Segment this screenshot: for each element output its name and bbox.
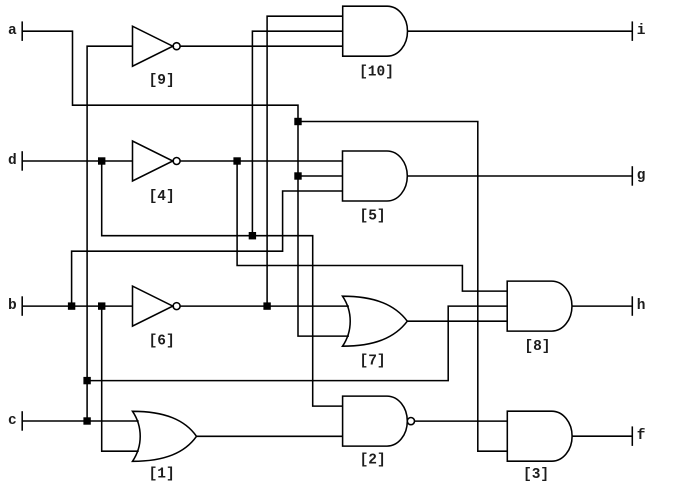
svg-text:a: a	[8, 23, 17, 39]
or gate U1	[133, 411, 197, 482]
output pin f	[632, 426, 645, 446]
svg-text:[8]: [8]	[524, 339, 550, 355]
or gate U7	[343, 296, 408, 369]
svg-text:[3]: [3]	[523, 467, 549, 483]
wire 6-out to gate 7	[180, 305, 349, 307]
wire 1-out to gate 2	[197, 435, 343, 437]
svg-text:[4]: [4]	[149, 189, 175, 205]
wire f output	[572, 435, 632, 437]
input pin d	[8, 151, 22, 171]
and gate U5	[343, 151, 408, 224]
svg-text:g: g	[637, 168, 646, 184]
input pin c	[8, 411, 22, 431]
and gate U3	[507, 411, 572, 483]
svg-text:i: i	[637, 23, 646, 39]
wire b branch up to gate 5	[72, 191, 343, 306]
wire g output	[407, 175, 632, 177]
inverter U4	[133, 141, 181, 205]
wire d branch down to gate 2	[102, 161, 343, 406]
wire a input line	[22, 31, 349, 336]
node b-down	[98, 302, 105, 309]
input pin a	[8, 21, 22, 41]
wire i output	[408, 30, 633, 32]
wire b branch down to gate 1	[102, 306, 139, 451]
wire d branch up to gate 10	[252, 31, 342, 236]
svg-text:b: b	[8, 298, 17, 314]
wire a branch to gate 5	[298, 175, 343, 177]
wire 7-out to gate 8	[407, 320, 507, 322]
wire b input line	[22, 305, 132, 307]
inverter U6	[133, 286, 181, 350]
wire a branch to gate 3	[298, 122, 507, 452]
svg-text:f: f	[637, 428, 646, 444]
wire 2-out to gate 3	[415, 420, 508, 422]
wire c branch to gate 8	[87, 306, 507, 381]
wire h output	[572, 305, 632, 307]
node a-branch2	[294, 172, 301, 179]
svg-text:h: h	[637, 298, 646, 314]
node a-branch1	[294, 118, 301, 125]
svg-text:c: c	[8, 413, 17, 429]
svg-text:[5]: [5]	[360, 208, 386, 224]
node c-branch	[83, 377, 90, 384]
svg-text:[2]: [2]	[360, 453, 386, 469]
node 4-out-branch	[233, 157, 240, 164]
svg-text:[7]: [7]	[360, 354, 386, 370]
nand gate U2	[343, 396, 415, 469]
wire c up to gate 9	[87, 46, 132, 421]
output pin i	[632, 21, 646, 41]
svg-text:[9]: [9]	[149, 73, 175, 89]
node 6-out-branch	[263, 302, 270, 309]
svg-text:[10]: [10]	[359, 64, 394, 80]
inverter U9	[133, 26, 181, 89]
wire 4-out branch to gate 8	[237, 161, 507, 291]
wire d input line	[22, 160, 132, 162]
output pin h	[632, 296, 645, 316]
and gate U8	[507, 281, 572, 355]
node b-up	[68, 302, 75, 309]
wire 6-out branch up to gate 10	[267, 16, 343, 306]
output pin g	[632, 166, 645, 186]
svg-text:[1]: [1]	[149, 467, 175, 483]
wire c input line	[22, 420, 139, 422]
input pin b	[8, 296, 22, 316]
node d-to-10	[249, 232, 256, 239]
wire 4-out to gate 5	[180, 160, 342, 162]
svg-text:d: d	[8, 153, 17, 169]
node c-to-9	[83, 417, 90, 424]
svg-text:[6]: [6]	[149, 334, 175, 350]
node d-branch	[98, 157, 105, 164]
and gate U10	[343, 6, 408, 80]
wire 9-out to gate 10	[180, 45, 343, 47]
